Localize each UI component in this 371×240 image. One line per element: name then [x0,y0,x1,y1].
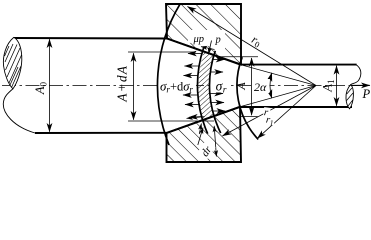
die cone upper surface [167,39,240,65]
stress arrow right 2 [211,71,224,73]
A0 dimension [33,39,50,132]
stress arrow left 3 [184,75,198,77]
sigma_r arrows (right face, pointing right) [210,60,225,112]
pressure p arrow upper [209,41,212,55]
rod top edge [14,37,167,40]
rod bottom edge [35,132,167,134]
exit arc r1 surface [237,57,258,139]
dr dimension arrows [198,128,203,146]
svg-text:μp: μp [193,34,205,45]
stress arrow left 1 [188,53,202,55]
svg-text:2α: 2α [254,80,267,94]
exit wire right break lens (hatched) [346,85,353,109]
sigma_r + d sigma_r arrows (left face, pointing left) [183,54,202,118]
stress arrow right 1 [213,59,225,61]
die block upper (hatched) [166,4,241,65]
fan: r radius line with arrowhead [223,86,317,136]
label sigma_r + d sigma_r [160,78,197,95]
fan: r1 radius line with arrowhead [257,86,316,139]
rod left break lens (hatched) [3,37,21,88]
label r0 [248,32,267,52]
exit wire bottom edge [240,106,352,108]
fan: cone extension upper [240,65,316,86]
stress arrow left 4 [183,94,198,96]
svg-text:σr+dσr: σr+dσr [160,79,193,95]
P force arrow [351,84,370,86]
friction mu-p arrow upper [201,47,215,50]
svg-text:A: A [234,82,248,91]
rod bottom-left break wavy line [3,89,35,133]
stress arrow left 2 [185,65,200,67]
label r [263,107,271,119]
label dr [198,140,217,159]
label 2-alpha [254,79,270,94]
A1 dimension [336,66,338,106]
svg-text:P: P [362,87,371,101]
centerline axis [2,85,352,87]
label mu-p [193,33,210,46]
entry arc r0 surface [157,4,180,145]
svg-text:p: p [215,35,221,46]
element left arc (A+dA face) [197,48,207,134]
A dimension at exit [218,57,258,117]
fan: r0 radius line with arrowhead [188,7,317,86]
exit wire right break curve upper [351,65,361,85]
fan: cone extension lower [240,86,316,107]
label r1 [265,114,276,127]
friction arrow lower [187,117,205,119]
label sigma_r [214,78,230,96]
label p [215,33,224,46]
die block lower (hatched) [167,107,242,162]
element slice hatched area [198,52,214,121]
stress arrow left 5 [185,104,200,106]
die cone lower surface [167,107,241,133]
stress arrow right 3 [210,93,223,95]
stress arrow right 4 [211,102,224,104]
svg-text:A+dA: A+dA [115,65,130,103]
pressure p arrow lower [199,124,201,135]
white gap in hatching around labels [188,30,225,49]
A+dA dimension [115,52,215,121]
stress arrow right 5 [213,110,226,112]
element right arc (A face) [210,51,221,133]
stress arrow left 6 [189,116,202,119]
exit wire top edge [240,64,357,66]
2-alpha angle arc [270,73,272,98]
